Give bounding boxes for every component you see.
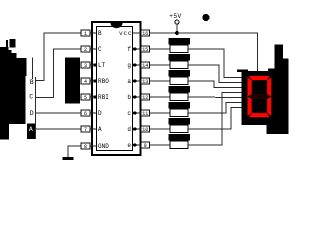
svg-text:9: 9 — [144, 143, 147, 149]
redacted value label of R4 — [169, 86, 191, 93]
pin 16 box (VCC) — [141, 30, 150, 37]
op IC U1 74LS47 outer body — [92, 22, 141, 155]
svg-text:14: 14 — [142, 63, 148, 69]
redacted value label of R5 — [169, 102, 191, 109]
wire segment a: resistor to display — [188, 81, 242, 88]
wire pin 3 stub — [90, 64, 97, 66]
active-low bubble pin 9 — [133, 143, 136, 146]
svg-text:VCC: VCC — [119, 30, 132, 37]
wire IC pin to resistor R7 — [150, 144, 171, 146]
resistor R4 — [170, 93, 188, 101]
resistor R3 — [170, 77, 188, 85]
svg-text:5: 5 — [84, 95, 87, 101]
wire segment c: resistor to display — [188, 103, 242, 114]
display segment b — [267, 77, 272, 97]
svg-text:+5V: +5V — [169, 13, 181, 20]
wire pin 13 stub — [133, 80, 142, 82]
pin 8 box (GND) — [81, 143, 90, 150]
active-low bubble pin 11 — [133, 111, 136, 114]
svg-text:B: B — [98, 30, 102, 37]
svg-text:16: 16 — [142, 31, 148, 37]
display segment e — [247, 97, 252, 117]
svg-text:e: e — [127, 142, 131, 149]
wire pin 10 stub — [133, 128, 142, 130]
wire IC pin to resistor R2 — [150, 64, 171, 66]
pin 2 box (C) — [81, 46, 90, 53]
wire GND pin 8 — [68, 146, 81, 157]
active-low bubble pin 3 — [93, 63, 96, 66]
wire pin 11 stub — [133, 112, 142, 114]
svg-text:C: C — [29, 94, 33, 101]
input connector edge — [35, 77, 37, 139]
display segment d — [249, 113, 270, 118]
wire segment e: resistor to display — [188, 93, 242, 146]
wire IC pin to resistor R5 — [150, 112, 171, 114]
svg-text:D: D — [98, 110, 102, 117]
pin 5 box (RBI) — [81, 94, 90, 101]
svg-text:1: 1 — [84, 31, 87, 37]
svg-text:c: c — [127, 110, 131, 117]
redacted value label of R1 — [169, 38, 191, 45]
wire pin 7 stub — [90, 128, 97, 130]
wire pin 5 stub — [90, 96, 97, 98]
redacted block middle — [65, 58, 80, 104]
pin 7 box (A) — [81, 126, 90, 133]
wire input A to pin 7 — [36, 128, 82, 130]
pin 13 box (a) — [141, 78, 150, 85]
wire segment b: resistor to display — [188, 96, 242, 99]
svg-text:B: B — [30, 79, 34, 86]
active-low bubble pin 14 — [133, 63, 136, 66]
node A label (inverted) — [27, 124, 35, 140]
stray dot — [202, 14, 209, 21]
wire pin 6 stub — [90, 112, 97, 114]
wire pin 9 stub — [133, 144, 142, 146]
redacted value label of R7 — [169, 134, 191, 141]
svg-text:4: 4 — [84, 79, 87, 85]
wire input C to pin 2 — [36, 49, 82, 98]
wire IC pin to resistor R3 — [150, 80, 171, 82]
pin 3 box (LT) — [81, 62, 90, 69]
pin 14 box (g) — [141, 62, 150, 69]
svg-text:f: f — [127, 46, 131, 53]
junction +5V / VCC — [175, 31, 179, 35]
svg-text:A: A — [98, 126, 102, 133]
wire segment d: resistor to display — [188, 108, 242, 130]
active-low bubble pin 15 — [133, 47, 136, 50]
svg-text:12: 12 — [142, 95, 148, 101]
svg-text:15: 15 — [142, 47, 148, 53]
redacted value label of R6 — [169, 118, 191, 125]
pin 6 box (D) — [81, 110, 90, 117]
wire pin 1 stub — [90, 32, 97, 34]
wire input B to pin 1 — [36, 33, 82, 81]
svg-text:g: g — [127, 62, 131, 69]
wire +5V to VCC rail — [176, 24, 178, 33]
active-low bubble pin 4 — [93, 79, 96, 82]
resistor R1 — [170, 45, 188, 53]
wire IC pin to resistor R4 — [150, 96, 171, 98]
wire segment g: resistor to display — [188, 65, 242, 83]
wire pin 12 stub — [133, 96, 142, 98]
wire segment f: resistor to display — [188, 49, 242, 78]
svg-text:GND: GND — [98, 143, 109, 150]
wire IC pin to resistor R1 — [150, 48, 171, 50]
svg-text:2: 2 — [84, 47, 87, 53]
display redacted blob right — [237, 45, 289, 134]
active-low bubble pin 5 — [93, 95, 96, 98]
wire stub above B (redacted source) — [32, 58, 34, 80]
wire IC pin to resistor R6 — [150, 128, 171, 130]
svg-text:8: 8 — [84, 144, 87, 150]
pin 10 box (d) — [141, 126, 150, 133]
IC orientation notch — [111, 23, 123, 28]
svg-text:7: 7 — [84, 127, 87, 133]
pin 11 box (c) — [141, 110, 150, 117]
resistor R7 — [170, 141, 188, 149]
svg-text:D: D — [30, 110, 34, 117]
pin 9 box (e) — [141, 142, 150, 149]
redacted value label of R3 — [169, 70, 191, 77]
svg-text:10: 10 — [142, 127, 148, 133]
display segment f — [247, 77, 252, 97]
IC inner body — [97, 27, 133, 151]
active-low bubble pin 13 — [133, 79, 136, 82]
svg-text:11: 11 — [142, 111, 148, 117]
svg-text:13: 13 — [142, 79, 148, 85]
active-low bubble pin 12 — [133, 95, 136, 98]
svg-text:a: a — [127, 78, 131, 85]
wire pin 8 stub — [90, 145, 97, 147]
resistor R2 — [170, 61, 188, 69]
svg-text:b: b — [127, 94, 131, 101]
wire pin 2 stub — [90, 48, 97, 50]
svg-text:d: d — [127, 126, 131, 133]
+5V terminal — [175, 20, 179, 24]
svg-text:RBO: RBO — [98, 78, 109, 85]
display segment a — [249, 76, 270, 81]
wire pin 15 stub — [133, 48, 142, 50]
svg-text:LT: LT — [98, 62, 106, 69]
display segment c — [267, 97, 272, 117]
active-low bubble pin 10 — [133, 127, 136, 130]
wire input D to pin 6 — [36, 112, 82, 114]
pin 1 box (B) — [81, 30, 90, 37]
svg-text:C: C — [98, 46, 102, 53]
svg-text:RBI: RBI — [98, 94, 109, 101]
display segment g — [248, 94, 271, 99]
resistor R5 — [170, 109, 188, 117]
ground symbol — [63, 157, 74, 160]
svg-text:A: A — [29, 126, 33, 133]
pin 12 box (b) — [141, 94, 150, 101]
pin 15 box (f) — [141, 46, 150, 53]
redacted value label of R2 — [169, 54, 191, 61]
7-segment display body — [241, 71, 288, 125]
svg-text:6: 6 — [84, 111, 87, 117]
wire pin 16 stub — [133, 32, 142, 34]
wire pin 4 stub — [90, 80, 97, 82]
svg-text:3: 3 — [84, 63, 87, 69]
resistor R6 — [170, 125, 188, 133]
pin 4 box (RBO) — [81, 78, 90, 85]
wire VCC rail pin16 to display anode — [150, 33, 258, 72]
redacted blob left — [0, 39, 27, 140]
wire pin 14 stub — [133, 64, 142, 66]
